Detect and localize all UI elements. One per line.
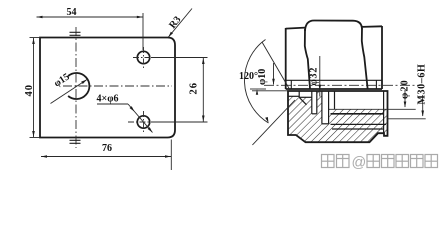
svg-text:M30–6H: M30–6H (417, 64, 428, 105)
svg-text:R3: R3 (167, 14, 183, 30)
svg-text:4×φ6: 4×φ6 (97, 94, 119, 105)
body outline (288, 91, 388, 142)
svg-text:54: 54 (67, 7, 77, 18)
phi10 ext line under body edge (252, 90, 288, 92)
dim 120deg (244, 40, 268, 124)
dim 26 (151, 58, 208, 123)
center hole phi15 (68, 73, 89, 99)
dim phi10 (273, 63, 275, 85)
svg-text:26: 26 (189, 82, 200, 95)
dim 40 (30, 38, 41, 138)
top hole crosshair (133, 47, 154, 68)
dim M30-6H (422, 95, 424, 116)
leader 4xphi6 (97, 104, 153, 133)
bore white cutouts (288, 91, 388, 124)
svg-text:φ32: φ32 (309, 67, 320, 86)
dim 76 (41, 140, 171, 171)
vertical centerline (75, 27, 77, 148)
hex chamfer arcs (286, 80, 382, 89)
watermark (322, 155, 438, 168)
hole phi6 bottom (137, 116, 149, 128)
svg-text:φ20: φ20 (400, 79, 411, 99)
svg-text:120°: 120° (239, 71, 258, 82)
leader R3 (168, 9, 192, 38)
plate outline (40, 38, 175, 138)
dim 54 (37, 13, 144, 50)
svg-text:76: 76 (102, 143, 112, 154)
dim phi32 (319, 56, 321, 97)
leader phi15 (51, 80, 88, 104)
hex nut outline (286, 21, 382, 90)
svg-text:@: @ (352, 155, 367, 171)
bottom hole crosshair (128, 111, 158, 134)
hole phi6 top (137, 51, 149, 63)
symmetry ticks bottom (70, 140, 81, 143)
svg-text:φ10: φ10 (257, 69, 268, 85)
svg-text:φ15: φ15 (52, 71, 72, 89)
symmetry ticks top (70, 32, 81, 35)
dim phi20 (404, 90, 406, 107)
svg-text:40: 40 (24, 84, 35, 97)
body hatched block (288, 91, 388, 142)
inner bore lines (288, 91, 386, 133)
horizontal centerline (63, 85, 172, 87)
main axis centerline (264, 84, 420, 86)
